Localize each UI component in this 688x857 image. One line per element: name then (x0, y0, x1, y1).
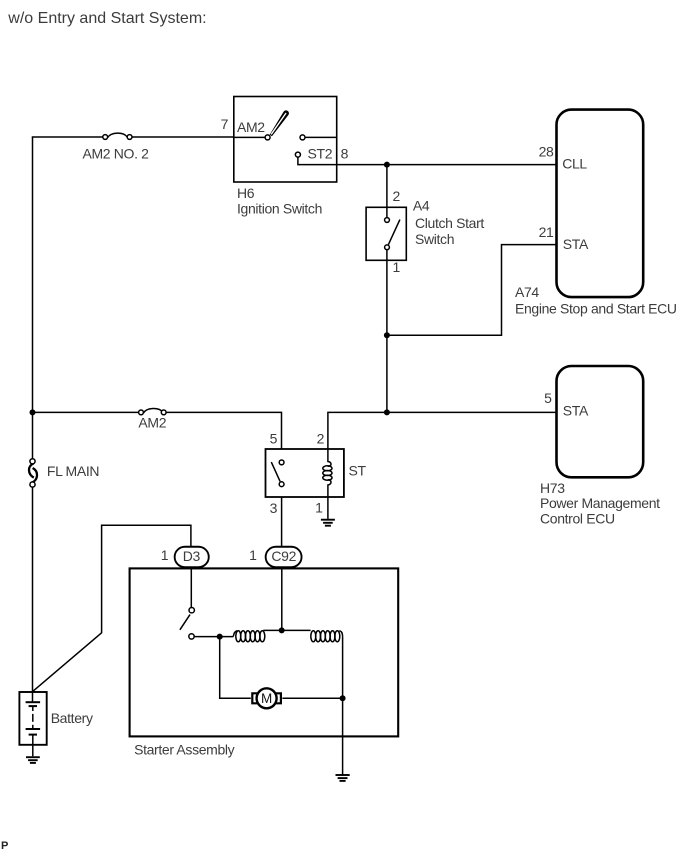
wire C92 to coil junction (281, 568, 283, 630)
starter switch contacts (189, 608, 194, 613)
wire ST2 pin 8 to A74 CLL (298, 157, 557, 165)
relay coil (323, 449, 332, 497)
junction dot left rail/AM2 (30, 409, 36, 415)
svg-text:2: 2 (393, 188, 401, 204)
svg-text:1: 1 (315, 500, 323, 516)
svg-text:CLL: CLL (562, 156, 587, 172)
starter assembly box (130, 568, 399, 736)
ignition ST2 lower contact (295, 152, 300, 157)
clutch start switch A4 box (366, 207, 406, 260)
fuse AM2 NO. 2 (103, 133, 132, 139)
wire clutch switch branch (386, 165, 388, 413)
svg-text:ST2: ST2 (308, 146, 333, 162)
ground battery (26, 757, 40, 763)
ignition ST2 upper contact and stub (300, 135, 337, 140)
svg-text:FL MAIN: FL MAIN (47, 463, 99, 479)
svg-text:STA: STA (563, 236, 589, 252)
ground relay (321, 520, 335, 526)
junction dot A4/STA5 (384, 409, 390, 415)
wire to motor (220, 637, 251, 699)
svg-text:Starter Assembly: Starter Assembly (134, 742, 235, 758)
svg-text:28: 28 (539, 144, 554, 160)
relay contacts (279, 460, 284, 465)
svg-text:Switch: Switch (415, 231, 454, 247)
battery (19, 692, 46, 756)
svg-text:21: 21 (539, 224, 554, 240)
starter switch blade (180, 615, 190, 630)
wire left rail top horizontal (33, 136, 234, 139)
A4 blade (388, 220, 400, 245)
wire switch to coil1 (194, 636, 233, 638)
svg-text:1: 1 (393, 259, 401, 275)
ignition switch H6 box (234, 97, 337, 183)
svg-text:C92: C92 (271, 548, 296, 564)
A74 ECU box (557, 110, 644, 298)
wire motor to junction (282, 697, 342, 699)
relay blade (271, 462, 280, 481)
svg-text:D3: D3 (183, 548, 201, 564)
coil 1 pull-in winding (233, 630, 310, 641)
svg-text:1: 1 (249, 547, 257, 563)
svg-text:H73: H73 (540, 480, 565, 496)
svg-text:5: 5 (544, 390, 552, 406)
wire relay pin3 to C92 (281, 497, 283, 547)
A4 contacts (385, 218, 390, 223)
wire left rail vertical (32, 137, 34, 702)
svg-text:P: P (1, 840, 8, 852)
wire D3 to starter switch (190, 568, 192, 607)
junction dot motor/ground rail (340, 695, 346, 701)
junction dot node pin8/CLL (384, 162, 390, 168)
svg-text:ST: ST (349, 462, 367, 478)
svg-text:Battery: Battery (51, 710, 93, 726)
wire D3 loop to battery (33, 525, 191, 691)
ST relay box (266, 449, 344, 497)
wire relay pin1 to ground (327, 497, 329, 519)
svg-text:AM2: AM2 (138, 415, 166, 431)
ignition AM2 contact (265, 135, 270, 140)
wire AM2 fuse row to relay pin5 (33, 412, 282, 449)
wire A74 STA21 (387, 245, 557, 336)
svg-text:2: 2 (317, 431, 325, 447)
junction dot C92/coils (279, 627, 285, 633)
svg-text:Ignition Switch: Ignition Switch (237, 200, 322, 216)
coil 2 hold-in winding (311, 631, 343, 642)
svg-text:8: 8 (341, 146, 349, 162)
svg-text:5: 5 (270, 431, 278, 447)
svg-text:AM2: AM2 (237, 119, 265, 135)
svg-text:w/o Entry and Start System:: w/o Entry and Start System: (7, 10, 206, 27)
connector C92 (266, 547, 302, 567)
svg-text:Clutch Start: Clutch Start (415, 215, 484, 231)
H73 ECU box (557, 366, 644, 477)
wire H6 pin7 entry (234, 136, 265, 138)
svg-text:Control ECU: Control ECU (540, 511, 615, 527)
ground starter (336, 775, 350, 781)
wire relay pin2 to H73 STA (328, 412, 557, 449)
wire coil2 to ground rail (342, 637, 344, 775)
svg-text:Engine Stop and Start ECU: Engine Stop and Start ECU (515, 300, 677, 316)
svg-text:7: 7 (221, 116, 229, 132)
svg-text:A74: A74 (515, 284, 539, 300)
svg-text:STA: STA (563, 403, 589, 419)
svg-text:3: 3 (270, 500, 278, 516)
svg-text:A4: A4 (413, 197, 430, 213)
ignition switch lever (270, 110, 289, 136)
connector D3 (175, 547, 209, 567)
svg-text:1: 1 (161, 547, 169, 563)
junction dot A4/STA21 (384, 332, 390, 338)
FL MAIN fusible link (29, 459, 37, 487)
svg-text:M: M (261, 691, 272, 706)
svg-text:AM2 NO. 2: AM2 NO. 2 (83, 146, 150, 162)
motor M1 (252, 688, 281, 708)
fuse AM2 (139, 408, 167, 414)
svg-text:H6: H6 (237, 185, 255, 201)
svg-text:Power Management: Power Management (540, 495, 660, 511)
junction dot switch/motor (217, 634, 223, 640)
